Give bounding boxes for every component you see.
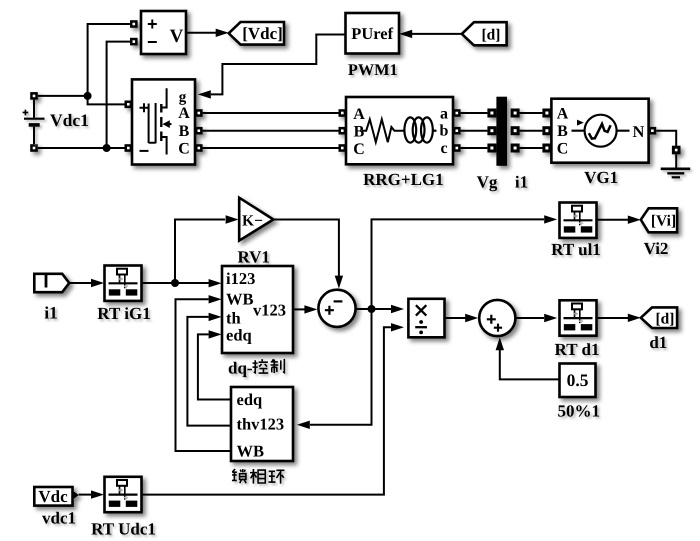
svg-text:K−: K− bbox=[242, 212, 263, 229]
svg-text:edq: edq bbox=[237, 390, 264, 409]
svg-text:d1: d1 bbox=[649, 333, 667, 352]
wire: inverter B to RRG+LG1 B bbox=[203, 130, 339, 132]
DC voltage source Vdc1: top port bbox=[30, 92, 38, 100]
VG1 sine source symbol bbox=[572, 115, 630, 147]
PWM block PUref bbox=[346, 13, 400, 54]
wire: product output to sum2 bbox=[445, 317, 466, 319]
from tag i1 (current measurement) bbox=[34, 274, 69, 292]
goto tag [Vdc] bbox=[229, 22, 284, 45]
voltmeter U-V: input port - bbox=[130, 38, 138, 46]
VG1 N output port bbox=[649, 127, 657, 135]
node: junction top rail bbox=[84, 92, 92, 100]
svg-text:A: A bbox=[178, 105, 190, 122]
wire: RT d1 output to goto tag [d] bbox=[597, 317, 629, 319]
svg-text:i123: i123 bbox=[226, 269, 255, 288]
bus left port b bbox=[487, 126, 496, 135]
svg-text:dq-: dq- bbox=[228, 358, 253, 377]
wire: junction up to gain RV1 bbox=[175, 220, 225, 284]
svg-text:Vdc1: Vdc1 bbox=[50, 110, 89, 130]
wire: inverter A to RRG+LG1 A bbox=[203, 112, 339, 114]
node: junction bottom rail bbox=[103, 144, 111, 152]
svg-text:i1: i1 bbox=[44, 302, 58, 322]
svg-text:Vi2: Vi2 bbox=[644, 239, 669, 258]
constant block 0.5 bbox=[560, 364, 596, 398]
CJK char zhi (control-2) bbox=[271, 359, 285, 373]
voltmeter block V bbox=[141, 11, 186, 54]
svg-text:WB: WB bbox=[226, 290, 254, 309]
wire: inverter C to RRG+LG1 C bbox=[203, 147, 339, 149]
inductor symbol inside RRG+LG1 bbox=[404, 117, 436, 142]
svg-text:i1: i1 bbox=[515, 173, 528, 192]
label PLL (suo xiang huan) bbox=[232, 469, 284, 484]
wire: VG1 N to ground port bbox=[656, 131, 676, 146]
CJK char kong (control-1) bbox=[253, 359, 269, 373]
goto tag [d] (output duty) bbox=[641, 307, 677, 328]
svg-text:VG1: VG1 bbox=[584, 168, 618, 187]
wire: PUref gate output down-left to inverter g input bbox=[211, 35, 346, 95]
voltmeter U-V: input port + bbox=[130, 20, 138, 28]
svg-text:edq: edq bbox=[226, 325, 253, 344]
rate transition block RT d1 bbox=[560, 300, 597, 335]
svg-text:[d]: [d] bbox=[482, 26, 501, 43]
wire: from tag [d] to PUref input bbox=[412, 33, 462, 35]
svg-text:[Vi]: [Vi] bbox=[651, 213, 676, 230]
three-phase source block VG1 bbox=[551, 99, 648, 163]
wire: RRG b to bus bbox=[461, 130, 488, 132]
svg-text:N: N bbox=[633, 122, 645, 141]
DC voltage source Vdc1: battery symbol bbox=[23, 100, 45, 145]
bus left port c bbox=[487, 144, 496, 153]
svg-text:Vg: Vg bbox=[477, 173, 498, 192]
inverter output port C bbox=[195, 144, 203, 152]
svg-text:RT Udc1: RT Udc1 bbox=[91, 519, 156, 538]
wire: junction up then right to RT ul1 bbox=[372, 219, 545, 309]
wire: PLL edq output up to dq-control edq input bbox=[198, 334, 231, 399]
svg-text:C: C bbox=[353, 141, 365, 158]
PLL block (phase locked loop) bbox=[231, 387, 293, 461]
svg-text:0.5: 0.5 bbox=[567, 370, 589, 390]
wire: RRG c to bus bbox=[461, 147, 488, 149]
sum block sum2 (+ +) bbox=[479, 300, 515, 336]
svg-text:v123: v123 bbox=[253, 300, 286, 319]
inverter bridge block: + input port bbox=[125, 101, 133, 109]
wire: Vdc1 top port to junction and down-step to inverter + input bbox=[38, 96, 125, 105]
wire: RT Udc1 output right then up to divide input bbox=[142, 327, 392, 494]
wire: PLL th output up to dq-control th input bbox=[187, 317, 231, 426]
svg-text:[d]: [d] bbox=[656, 311, 675, 328]
svg-text:C: C bbox=[178, 141, 190, 158]
RRG+LG1 output port b bbox=[453, 127, 461, 135]
wire: sum2 output to RT d1 bbox=[515, 317, 544, 319]
rate transition block RT Udc1 bbox=[105, 477, 142, 512]
svg-text:A: A bbox=[353, 106, 365, 123]
svg-text:B: B bbox=[557, 123, 568, 140]
wire: junction down then left to PLL thv123 input bbox=[310, 309, 372, 425]
CJK char xiang bbox=[250, 469, 265, 484]
measurement bus bar Vg/i1 bbox=[496, 97, 507, 166]
wire: constant 0.5 to sum2 bottom input bbox=[500, 350, 560, 379]
inverter IGBT symbol bbox=[149, 88, 172, 154]
svg-text:PWM1: PWM1 bbox=[348, 60, 398, 79]
svg-text:RRG+LG1: RRG+LG1 bbox=[363, 170, 444, 189]
svg-text:WB: WB bbox=[237, 442, 265, 461]
dq control block (dq-controller) bbox=[222, 266, 293, 353]
wire: PLL WB output up to dq-control WB input bbox=[176, 299, 232, 451]
inverter output port A bbox=[195, 109, 203, 117]
svg-text:RT d1: RT d1 bbox=[555, 340, 600, 359]
series RL branch block RRG+LG1 bbox=[346, 97, 453, 164]
rate transition block RT iG1 bbox=[105, 266, 142, 301]
inverter output port B bbox=[195, 127, 203, 135]
svg-text:C: C bbox=[557, 141, 569, 158]
svg-text:B: B bbox=[179, 123, 190, 140]
wire: voltmeter output to goto tag [Vdc] bbox=[186, 32, 217, 34]
RRG+LG1 input port C bbox=[339, 144, 347, 152]
svg-text:PUref: PUref bbox=[351, 24, 393, 43]
wire: RT ul1 output to goto tag [Vi] bbox=[597, 219, 629, 221]
ground port bbox=[672, 146, 681, 155]
svg-text:a: a bbox=[440, 105, 448, 122]
svg-text:b: b bbox=[440, 123, 449, 140]
VG1 input port B bbox=[542, 126, 551, 135]
wire: bus to VG1 A bbox=[520, 112, 543, 114]
RRG+LG1 output port c bbox=[453, 144, 461, 152]
VG1 input port C bbox=[542, 144, 551, 153]
inverter bridge block: - input port bbox=[125, 144, 133, 152]
wire: bus to VG1 B bbox=[520, 130, 543, 132]
node: junction after sum1 bbox=[368, 305, 376, 313]
svg-text:c: c bbox=[440, 140, 447, 157]
svg-text:[Vdc]: [Vdc] bbox=[242, 24, 283, 43]
RRG+LG1 input port A bbox=[339, 109, 347, 117]
svg-text:vdc1: vdc1 bbox=[42, 508, 76, 527]
svg-text:RT ul1: RT ul1 bbox=[551, 240, 601, 259]
gain block RV1 (K-) bbox=[239, 198, 273, 241]
inverter bridge block body bbox=[132, 79, 195, 164]
svg-text:V: V bbox=[170, 26, 184, 47]
wire: bottom junction up to voltmeter - input bbox=[107, 42, 134, 148]
wire: bus to VG1 C bbox=[520, 147, 543, 149]
svg-text:B: B bbox=[354, 123, 365, 140]
DC voltage source Vdc1: bottom port bbox=[30, 144, 38, 152]
bus left port a bbox=[487, 109, 496, 118]
node: i1 branch junction bbox=[171, 279, 179, 287]
wire: tag i1 to RT iG1 bbox=[69, 282, 91, 284]
wire: RT iG1 output to dq-control i123 bbox=[142, 282, 210, 284]
bus right port c bbox=[511, 144, 520, 153]
bus right port b bbox=[511, 126, 520, 135]
rate transition block RT ul1 bbox=[560, 203, 597, 238]
svg-text:RV1: RV1 bbox=[237, 248, 269, 267]
svg-text:thv123: thv123 bbox=[237, 414, 285, 433]
resistor symbol inside RRG+LG1 bbox=[362, 119, 404, 142]
CJK char suo bbox=[232, 469, 246, 483]
sum block sum1 (+ -) bbox=[318, 290, 355, 327]
wire: sum1 output to product block bbox=[356, 308, 391, 310]
wire: tag Vdc to RT Udc1 bbox=[79, 494, 92, 496]
wire: Vdc1 bottom port to inverter - input bbox=[38, 147, 125, 149]
svg-text:50%1: 50%1 bbox=[558, 401, 601, 420]
svg-text:g: g bbox=[179, 90, 187, 106]
wire: junction up to voltmeter + input bbox=[88, 24, 134, 96]
ground symbol bbox=[661, 154, 691, 177]
wire: dq-control v123 output to sum1 bbox=[293, 308, 305, 310]
svg-text:Vdc: Vdc bbox=[38, 487, 68, 506]
svg-text:A: A bbox=[557, 106, 569, 123]
RRG+LG1 input port B bbox=[339, 127, 347, 135]
goto tag [Vi] bbox=[641, 208, 677, 232]
wire: RV1 output right then down to sum1 top bbox=[273, 220, 339, 277]
RRG+LG1 output port a bbox=[453, 109, 461, 117]
from tag [d] (duty reference) bbox=[462, 22, 507, 45]
wire: RRG a to bus bbox=[461, 112, 488, 114]
product/divide block bbox=[408, 299, 444, 338]
CJK char huan bbox=[269, 470, 285, 483]
from tag Vdc (dc voltage) bbox=[34, 487, 79, 506]
VG1 input port A bbox=[542, 109, 551, 118]
bus right port a bbox=[511, 109, 520, 118]
label dq-control bbox=[228, 358, 284, 377]
svg-text:RT iG1: RT iG1 bbox=[97, 304, 150, 323]
